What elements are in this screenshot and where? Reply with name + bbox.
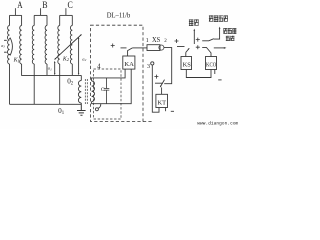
winding C right side coil <box>70 15 72 64</box>
KT contact blade <box>155 80 165 87</box>
wire terminal 3 down and to KT bottom <box>152 65 159 112</box>
svg-text:K1: K1 <box>13 58 20 64</box>
terminal 3 circle <box>151 62 154 65</box>
winding A lead <box>14 8 16 15</box>
svg-text:3: 3 <box>147 63 150 70</box>
dashed relay box DL-11/b <box>91 25 144 121</box>
svg-text:B: B <box>42 0 47 10</box>
svg-text:www.diangon.com: www.diangon.com <box>197 121 238 127</box>
label tiao duan lu qi (trip breaker) <box>209 15 213 21</box>
dimension arrow a1 <box>54 62 56 74</box>
capacitor C <box>104 78 110 104</box>
fault K1 arc on winding A <box>10 38 12 56</box>
winding B lead <box>40 8 42 15</box>
trip field switch arrow <box>214 47 225 49</box>
ground symbol <box>77 104 86 115</box>
fault K2 diagonal arrow <box>55 35 82 60</box>
wire primary bottom to ground node <box>80 103 82 104</box>
wire to trip breaker arrow <box>214 28 220 39</box>
KCO contact plus <box>196 45 200 49</box>
wire blade to KT coil <box>161 87 163 94</box>
winding C lead <box>65 8 67 15</box>
trip breaker contact plus <box>196 38 200 42</box>
wire contact to XS <box>132 47 147 49</box>
relay KCO box <box>206 57 217 70</box>
winding B left side coil <box>32 15 34 64</box>
winding B top bar <box>34 14 47 16</box>
KCO second lead and minus <box>214 70 216 75</box>
KCO contact <box>202 47 211 56</box>
trip breaker contact <box>202 39 214 41</box>
KA contact: plus, lead, blade <box>111 44 115 48</box>
label xin hao (signal) <box>189 19 194 25</box>
svg-text:a2: a2 <box>82 56 86 62</box>
relay KS box <box>181 57 192 70</box>
svg-text:XS: XS <box>152 36 160 44</box>
winding A right side coil <box>20 15 22 64</box>
svg-text:KCO: KCO <box>206 61 217 68</box>
signal arrow <box>193 30 195 44</box>
relay KT box <box>156 94 168 107</box>
wire: winding B,C right sides down to bus O2 <box>47 64 72 75</box>
connector XS box <box>147 45 160 51</box>
svg-text:KA: KA <box>124 61 134 68</box>
wire bus O2 down to transformer primary <box>80 75 82 80</box>
KS contact plus <box>175 39 179 43</box>
svg-text:a1: a1 <box>48 66 52 72</box>
wire KS bottom to KCO bottom <box>186 70 211 78</box>
svg-text:a3: a3 <box>1 43 5 49</box>
label kai guan (switch) <box>226 36 230 41</box>
svg-text:1: 1 <box>146 38 149 44</box>
svg-text:4: 4 <box>97 63 101 70</box>
svg-text:KS: KS <box>183 61 192 68</box>
KT right bottom lead and minus <box>165 108 167 112</box>
label tiao mie ci (trip de-excitation) <box>223 28 227 34</box>
bus O2: A right side bends into horizontal bus <box>22 64 82 75</box>
wire secondary top to KA left <box>92 69 126 81</box>
relay KA box <box>123 56 135 69</box>
inner dashed box 4 <box>94 69 122 119</box>
dimension arrow a2 <box>78 38 80 74</box>
KS contact lead and blade <box>177 46 185 48</box>
test terminal hook and circle <box>98 104 101 109</box>
turn span arrows winding A <box>4 40 6 52</box>
wire: winding left sides down to neutral bus O1 <box>9 64 11 104</box>
transformer core dashed <box>85 79 87 104</box>
winding A left side coil <box>8 15 10 64</box>
svg-text:DL–11/b: DL–11/b <box>107 11 131 20</box>
wire secondary bottom rail to KA right <box>92 69 132 104</box>
svg-text:A: A <box>17 0 23 10</box>
bus O1 neutral horizontal <box>10 103 82 105</box>
transformer primary coil <box>78 81 81 104</box>
winding A top bar <box>10 14 22 16</box>
winding C top bar <box>60 14 73 16</box>
svg-text:C: C <box>101 87 105 93</box>
KT contact plus <box>154 75 158 79</box>
winding B right side coil <box>45 15 47 64</box>
wire XS out, down, to KT contact <box>164 48 172 84</box>
svg-text:C: C <box>68 0 73 10</box>
transformer secondary coil <box>92 81 95 102</box>
winding C left side coil <box>58 15 60 64</box>
svg-text:KT: KT <box>158 99 167 106</box>
svg-text:K2: K2 <box>62 56 69 62</box>
